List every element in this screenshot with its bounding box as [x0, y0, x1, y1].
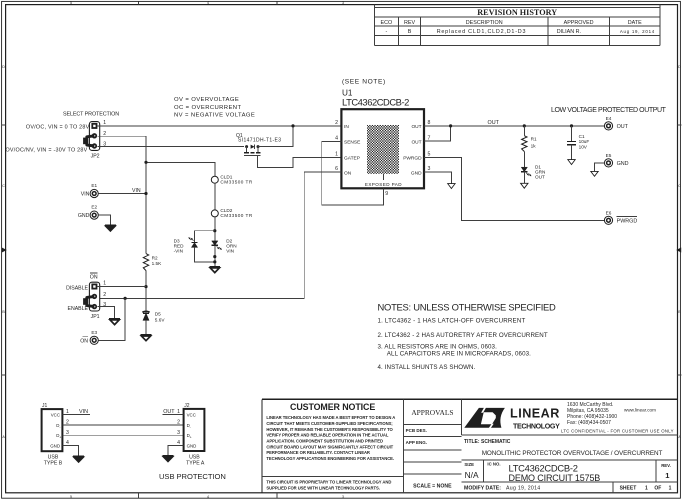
title row divider [462, 459, 678, 461]
wire E3 to ON net [98, 298, 125, 340]
svg-text:(SEE NOTE): (SEE NOTE) [342, 79, 386, 86]
border zone ticks left [2, 124, 6, 126]
svg-text:+: + [59, 435, 61, 439]
svg-text:4: 4 [207, 495, 209, 499]
diode D2 ORN LED (points down) [212, 241, 218, 245]
svg-text:3: 3 [177, 430, 180, 436]
svg-text:TITLE:: TITLE: [464, 439, 480, 445]
svg-text:2: 2 [335, 120, 338, 126]
svg-text:N/A: N/A [465, 470, 479, 480]
ground below E5 [591, 171, 598, 176]
wire U1 SENSE to exposed pad pin9 [322, 141, 384, 205]
wire J1 pin1 VIN stub [62, 413, 90, 415]
svg-text:MODIFY DATE:: MODIFY DATE: [464, 486, 501, 492]
junction dots at LED ground rail [213, 255, 216, 258]
svg-text:REVISION HISTORY: REVISION HISTORY [477, 8, 557, 17]
wire CLD1 to CLD2 [214, 183, 216, 210]
ground below E2 [105, 224, 116, 226]
border center arrow left [2, 248, 7, 253]
svg-text:MONOLITHIC PROTECTOR OVERVOLTA: MONOLITHIC PROTECTOR OVERVOLTAGE / OVERC… [482, 450, 663, 457]
svg-text:VIN: VIN [226, 248, 234, 253]
svg-text:LOW VOLTAGE PROTECTED OUTPUT: LOW VOLTAGE PROTECTED OUTPUT [551, 107, 667, 114]
svg-text:J1: J1 [42, 403, 48, 409]
svg-text:HOWEVER, IT REMAINS THE CUSTOM: HOWEVER, IT REMAINS THE CUSTOMER'S RESPO… [266, 427, 393, 432]
svg-text:2: 2 [103, 292, 106, 298]
svg-text:E4: E4 [606, 116, 612, 121]
svg-text:APPROVALS: APPROVALS [411, 408, 453, 417]
svg-text:DEMO CIRCUIT 1575B: DEMO CIRCUIT 1575B [509, 473, 601, 483]
svg-text:Aug 19, 2014: Aug 19, 2014 [620, 29, 655, 34]
approvals row lines [403, 424, 461, 426]
svg-text:DESCRIPTION: DESCRIPTION [466, 20, 503, 26]
testpoint E4 OUT [604, 122, 612, 130]
svg-text:SI1471DH-T1-E3: SI1471DH-T1-E3 [238, 138, 281, 144]
svg-text:ON: ON [344, 170, 352, 176]
svg-text:8: 8 [428, 120, 431, 126]
svg-text:5.6V: 5.6V [155, 318, 166, 323]
svg-text:+: + [190, 435, 192, 439]
wire U1 ON to JP1 pin2 [100, 172, 342, 299]
wire JP1 pin3 to ground [98, 307, 115, 319]
svg-text:4: 4 [335, 136, 338, 142]
svg-text:OV = OVERVOLTAGE: OV = OVERVOLTAGE [174, 97, 239, 103]
svg-text:VIN: VIN [132, 188, 141, 194]
wire Q1 gate to GATEP [257, 156, 341, 168]
svg-text:CM33500 TR: CM33500 TR [220, 213, 252, 218]
svg-text:-VIN: -VIN [174, 248, 183, 253]
wire USB D+ line [62, 434, 183, 436]
diode CLD1 CM33500 [211, 176, 218, 183]
junction dot VIN/CLD branch [144, 161, 147, 164]
size/ic row dividers [483, 460, 485, 482]
svg-text:B: B [408, 29, 412, 35]
border zone ticks bottom [138, 493, 140, 498]
U1 exposed pad crosshatch [367, 125, 399, 174]
svg-text:C: C [678, 184, 681, 188]
border zone ticks right [678, 124, 682, 126]
wire U1 GND pin3 to ground [424, 172, 451, 184]
wire USB D- line [62, 424, 183, 426]
svg-text:6: 6 [335, 166, 338, 172]
wire J2 pin4 to ground [168, 445, 184, 455]
svg-text:C1: C1 [579, 134, 585, 139]
svg-text:-: - [190, 425, 191, 429]
svg-text:1. LTC4362 - 1 HAS LATCH-OFF: 1. LTC4362 - 1 HAS LATCH-OFF OVERCURRENT [378, 318, 526, 325]
svg-text:E3: E3 [91, 330, 97, 335]
ground below U1 GND [448, 184, 455, 189]
wire JP2 pin3 to Q1 source [98, 146, 244, 148]
testpoint E3 ON-bar [90, 336, 98, 344]
svg-text:APPROVED: APPROVED [564, 20, 594, 26]
ground below D2 D3 [209, 266, 220, 268]
svg-text:ALL CAPACITORS ARE IN MICROFAR: ALL CAPACITORS ARE IN MICROFARADS, 0603. [387, 351, 531, 358]
svg-text:OF: OF [654, 486, 661, 492]
transistor Q1 P-MOSFET symbol [245, 145, 248, 148]
svg-text:SELECT PROTECTION: SELECT PROTECTION [63, 112, 119, 118]
svg-text:SENSE: SENSE [344, 140, 360, 146]
zener D5 5.6V (points up, curved bar) [142, 311, 150, 312]
svg-text:DILIAN R.: DILIAN R. [557, 29, 581, 35]
svg-text:NV = NEGATIVE VOLTAGE: NV = NEGATIVE VOLTAGE [174, 112, 255, 118]
wire J1 pin4 to ground [62, 445, 78, 456]
svg-text:TYPE B: TYPE B [44, 461, 63, 467]
ground below J2 [163, 455, 174, 457]
svg-text:3: 3 [342, 495, 344, 499]
svg-text:OUT: OUT [411, 124, 421, 130]
wire J2 pin1 OUT stub [163, 413, 184, 415]
testpoint E5 GND [604, 159, 612, 167]
svg-text:ENABLE: ENABLE [68, 306, 89, 312]
junction dot VIN bus / E1 [144, 192, 147, 195]
junction dot pin7/pin8 [449, 124, 452, 127]
jumper JP2 [89, 122, 99, 151]
junction dot JP1 pin1 / D5 [144, 285, 147, 288]
wire JP2 pin2 right [98, 135, 146, 137]
svg-text:PERFORMANCE OR RELIABILITY.: PERFORMANCE OR RELIABILITY. CONTACT LINE… [266, 450, 370, 455]
ground below C1 [568, 160, 575, 165]
wire E2 to ground [98, 215, 110, 225]
wire branch to D3 [195, 231, 215, 243]
op-amp U1 LTC4362CDCB-2 body [341, 109, 424, 188]
ground below D5 [141, 334, 152, 336]
svg-text:ON: ON [90, 275, 98, 281]
jumper JP1 [89, 282, 99, 311]
svg-text:VIN: VIN [79, 409, 88, 415]
svg-text:PWRGD: PWRGD [617, 219, 638, 225]
svg-text:3: 3 [342, 1, 344, 5]
border center arrow right [676, 248, 681, 253]
svg-text:E2: E2 [91, 205, 97, 210]
wire JP2 pin1 to U1 IN rail [98, 125, 342, 127]
wire VIN to CLD1 [146, 162, 215, 176]
junction dot LED branch [213, 229, 216, 232]
svg-text:PCB DES.: PCB DES. [406, 428, 427, 433]
svg-text:PWRGD: PWRGD [403, 156, 422, 162]
Q1 body diode arrow [251, 145, 255, 149]
resistor R1 1k [523, 124, 526, 127]
svg-text:IN: IN [344, 124, 349, 130]
ground below J1 [73, 455, 84, 457]
svg-text:OUT: OUT [617, 124, 629, 130]
svg-text:LTC CONFIDENTIAL - FOR CUSTOME: LTC CONFIDENTIAL - FOR CUSTOMER USE ONLY [561, 429, 674, 434]
wire OUT rail U1 pin8 to E4 [424, 125, 604, 127]
svg-text:1: 1 [669, 486, 672, 492]
svg-text:4: 4 [207, 1, 209, 5]
svg-text:CIRCUIT THAT MEETS CUSTOMER-SU: CIRCUIT THAT MEETS CUSTOMER-SUPPLIED SPE… [266, 421, 392, 426]
svg-text:VERIFY PROPER AND RELIABLE OPE: VERIFY PROPER AND RELIABLE OPERATION IN … [266, 433, 388, 438]
svg-text:SHEET: SHEET [620, 486, 637, 492]
testpoint E6 PWRGD [604, 216, 612, 224]
capacitor C1 10uF [570, 124, 573, 127]
wire CLD2 down to LED junction [214, 217, 216, 241]
resistor R2 1.5K [143, 254, 148, 271]
svg-text:OV/OC, VIN = 0 TO 28V: OV/OC, VIN = 0 TO 28V [26, 125, 90, 131]
wire Q1 drain to IN rail [258, 126, 293, 147]
svg-text:Fax: (408)434-0507: Fax: (408)434-0507 [567, 420, 611, 426]
svg-text:GND: GND [187, 443, 197, 448]
wire R1 to D1 [523, 152, 525, 168]
svg-text:TYPE A: TYPE A [186, 461, 205, 467]
svg-text:DATE: DATE [628, 20, 642, 26]
logo block divider [462, 434, 678, 436]
wire E1 to VIN bus [98, 193, 146, 195]
svg-text:5: 5 [70, 1, 72, 5]
svg-text:GND: GND [411, 170, 422, 176]
svg-text:1: 1 [335, 152, 338, 158]
svg-text:D5: D5 [155, 311, 161, 316]
svg-text:GND: GND [78, 213, 90, 219]
svg-text:OUT: OUT [411, 140, 421, 146]
svg-text:E1: E1 [91, 183, 97, 188]
svg-text:R2: R2 [152, 255, 158, 260]
svg-text:4. INSTALL SHUNTS AS SHOWN.: 4. INSTALL SHUNTS AS SHOWN. [378, 364, 476, 371]
svg-text:APP ENG.: APP ENG. [406, 440, 427, 445]
svg-text:10V: 10V [579, 145, 588, 150]
svg-text:www.linear.com: www.linear.com [624, 407, 656, 412]
svg-text:DISABLE: DISABLE [66, 285, 88, 291]
wire VIN vertical bus x=146 [145, 136, 147, 253]
connector J1 USB type B body [42, 409, 63, 451]
svg-text:OC = OVERCURRENT: OC = OVERCURRENT [174, 105, 241, 111]
junction dot E3 branch [124, 297, 127, 300]
svg-text:9: 9 [385, 191, 388, 197]
customer notice divider [262, 476, 403, 478]
svg-text:EXPOSED PAD: EXPOSED PAD [365, 182, 402, 187]
border zone ticks top [138, 1, 140, 4]
svg-text:LTC4362CDCB-2: LTC4362CDCB-2 [509, 463, 578, 474]
testpoint E1 VIN [90, 189, 98, 197]
svg-text:VCC: VCC [51, 412, 60, 417]
svg-text:GATEP: GATEP [344, 156, 360, 162]
svg-text:1: 1 [103, 281, 106, 287]
svg-text:1: 1 [645, 486, 648, 492]
svg-text:JP2: JP2 [91, 153, 100, 159]
svg-text:-: - [386, 29, 388, 35]
svg-text:JP1: JP1 [91, 314, 100, 320]
svg-text:SCHEMATIC: SCHEMATIC [481, 439, 511, 445]
svg-text:SUPPLIED FOR USE WITH LINEAR T: SUPPLIED FOR USE WITH LINEAR TECHNOLOGY … [266, 485, 379, 490]
svg-text:OUT: OUT [535, 174, 545, 179]
svg-text:ON: ON [80, 338, 88, 344]
diode D1 GRN LED [521, 167, 527, 172]
svg-text:OV/OC/NV, VIN = -30V TO 28V: OV/OC/NV, VIN = -30V TO 28V [5, 148, 87, 154]
svg-text:Aug 19, 2014: Aug 19, 2014 [506, 486, 540, 492]
svg-text:J2: J2 [184, 403, 190, 409]
wire E5 to ground [595, 163, 605, 171]
svg-text:VIN: VIN [81, 191, 90, 197]
junction dot IN rail / Q1 drain [291, 124, 294, 127]
svg-text:SIZE: SIZE [464, 462, 474, 467]
svg-text:-: - [59, 425, 60, 429]
title block outline [262, 398, 678, 400]
svg-text:E6: E6 [606, 211, 612, 216]
svg-text:OUT: OUT [488, 120, 500, 126]
svg-text:D: D [2, 65, 5, 69]
svg-text:10uF: 10uF [579, 139, 590, 144]
svg-text:NOTES: UNLESS OTHERWISE SPECIF: NOTES: UNLESS OTHERWISE SPECIFIED [378, 301, 557, 312]
svg-text:GND: GND [50, 443, 60, 448]
svg-text:E5: E5 [606, 153, 612, 158]
svg-text:3: 3 [103, 302, 106, 308]
svg-text:3. ALL RESISTORS ARE IN OHMS,: 3. ALL RESISTORS ARE IN OHMS, 0603. [378, 344, 498, 351]
wire D2 to ground [214, 245, 216, 266]
svg-text:USB PROTECTION: USB PROTECTION [159, 472, 226, 481]
svg-text:1.5K: 1.5K [152, 261, 163, 266]
svg-text:LINEAR: LINEAR [510, 407, 560, 421]
svg-text:CM33500 TR: CM33500 TR [220, 180, 252, 185]
svg-text:SCALE = NONE: SCALE = NONE [413, 483, 452, 489]
svg-text:APPLICATION. COMPONENT SUBSTI: APPLICATION. COMPONENT SUBSTITUTION AND … [266, 438, 383, 443]
svg-text:CIRCUIT BOARD LAYOUT MAY SIGNI: CIRCUIT BOARD LAYOUT MAY SIGNIFICANTLY A… [266, 444, 393, 449]
svg-text:D: D [678, 65, 681, 69]
ground below D1 [521, 183, 528, 188]
svg-text:TECHNOLOGY APPLICATIONS ENGINE: TECHNOLOGY APPLICATIONS ENGINEERING FOR … [266, 456, 394, 461]
revision history table [374, 7, 660, 9]
U1 exposed pad stub [382, 174, 384, 180]
testpoint E2 GND [90, 211, 98, 219]
svg-text:3: 3 [428, 166, 431, 172]
diode CLD2 CM33500 [211, 210, 218, 217]
svg-text:TECHNOLOGY: TECHNOLOGY [513, 422, 560, 430]
svg-text:R1: R1 [531, 136, 537, 141]
wire R2 to JP1 junction [145, 271, 147, 313]
svg-text:REV: REV [404, 20, 415, 26]
wire D1 to ground [523, 172, 525, 184]
svg-text:THIS CIRCUIT IS PROPRIETARY TO: THIS CIRCUIT IS PROPRIETARY TO LINEAR TE… [266, 480, 391, 485]
svg-text:5: 5 [428, 152, 431, 158]
svg-text:5: 5 [70, 495, 72, 499]
wire D5 to ground [145, 320, 147, 334]
wire JP1 pin1 to VIN bus [98, 286, 146, 288]
svg-text:REV.: REV. [661, 463, 671, 468]
connector J2 USB type A body [184, 409, 205, 451]
wire D3 to ground rail [195, 247, 215, 262]
svg-text:OUT: OUT [163, 409, 175, 415]
Linear Technology logo mark [464, 408, 505, 428]
wire U1 pin7 joins OUT rail [424, 126, 451, 141]
svg-text:ECO: ECO [381, 20, 393, 26]
svg-text:GND: GND [617, 161, 629, 167]
svg-text:IC NO.: IC NO. [487, 462, 500, 467]
svg-text:1: 1 [103, 120, 106, 126]
svg-text:2: 2 [177, 420, 180, 426]
svg-text:LTC4362CDCB-2: LTC4362CDCB-2 [342, 97, 409, 108]
svg-text:VCC: VCC [187, 412, 196, 417]
svg-text:Replaced CLD1,CLD2,D1-D3: Replaced CLD1,CLD2,D1-D3 [437, 29, 527, 35]
diode D3 RED LED (points up) [191, 243, 197, 248]
wire U1 PWRGD to E6 [424, 158, 604, 221]
svg-text:C: C [2, 184, 5, 188]
ground below JP1 pin3 [109, 318, 120, 320]
svg-text:2. LTC4362 - 2 HAS AUTORETRY: 2. LTC4362 - 2 HAS AUTORETRY AFTER OVERC… [378, 332, 548, 339]
svg-text:CUSTOMER NOTICE: CUSTOMER NOTICE [290, 402, 375, 412]
svg-text:1k: 1k [531, 143, 537, 148]
svg-text:LINEAR TECHNOLOGY HAS MADE A B: LINEAR TECHNOLOGY HAS MADE A BEST EFFORT… [266, 415, 395, 420]
